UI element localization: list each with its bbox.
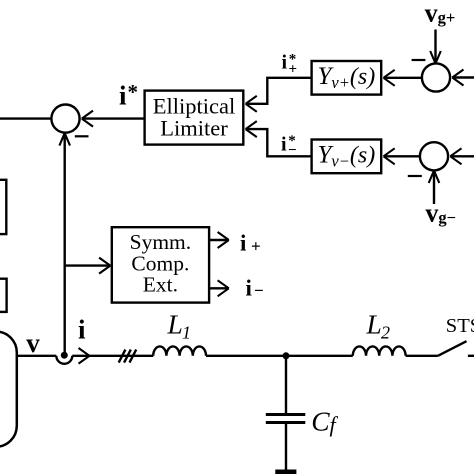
node dot at v/i measurement point: [61, 352, 68, 359]
node dot at Cf junction: [283, 352, 290, 359]
svg-text:+: +: [251, 237, 261, 256]
wire Cf to ground: [285, 424, 287, 471]
arrowhead into Yv- right: [384, 148, 395, 164]
wire vertical i feedback line: [63, 134, 65, 355]
svg-text:2: 2: [381, 323, 390, 343]
arrowhead i+: [218, 232, 229, 248]
summing junction S3 (bottom, vg-): [420, 142, 448, 170]
arrowhead into Elliptical Limiter bottom input: [246, 121, 257, 137]
svg-text:v: v: [26, 328, 40, 358]
arrowhead into S3 bottom: [429, 171, 440, 183]
svg-text:Yv+(s): Yv+(s): [318, 63, 376, 92]
svg-text:i: i: [78, 315, 86, 345]
wire vg- up into S3: [433, 171, 435, 204]
wire L1 to Cf node: [206, 355, 353, 357]
three-phase slashes: [119, 350, 137, 363]
arrowhead into Yv+ right: [384, 70, 395, 86]
svg-text:vg−: vg−: [425, 198, 456, 227]
minus sign at S2: [412, 59, 426, 61]
arrowhead into Elliptical Limiter top input: [246, 96, 257, 112]
capacitor Cf wire from node: [285, 356, 287, 414]
arrowhead into S2 right: [452, 70, 463, 86]
svg-text:*: *: [128, 80, 139, 104]
inductor L1: [153, 346, 206, 355]
wire output i+ from Symm Comp Ext: [209, 239, 227, 241]
svg-text:−: −: [254, 281, 264, 300]
wire summing S3 to Yv-: [384, 155, 421, 157]
wire input from right edge into S2: [452, 76, 474, 78]
ground: [275, 470, 296, 474]
wire main bus from converter to node hop: [17, 355, 57, 357]
Symm Comp Ext box U2: [112, 227, 209, 302]
svg-text:i: i: [246, 276, 253, 301]
arrowhead into summing circle bottom: [59, 133, 70, 145]
minus sign at S3: [408, 175, 422, 177]
wire input from right edge into S3: [450, 155, 474, 157]
STS switch blade (open): [438, 341, 467, 356]
wire hop (dip) at measurement node: [56, 356, 72, 364]
partial block at left edge (lower): [0, 279, 7, 312]
wire main bus node to L1: [72, 355, 153, 357]
partial block at left edge (upper): [0, 180, 6, 234]
STS switch right contact wire: [468, 355, 474, 357]
admittance box Yv-: [312, 140, 382, 174]
svg-text:L: L: [366, 309, 382, 340]
arrowhead into Symm Comp Ext left: [99, 258, 110, 274]
svg-text:Ext.: Ext.: [143, 273, 178, 297]
wire summing S2 to Yv+: [384, 77, 422, 79]
converter block (cut off at left edge): [0, 332, 17, 447]
summing junction S1 (current reference): [51, 105, 79, 133]
wire output i- from Symm Comp Ext: [209, 287, 227, 289]
svg-text:i: i: [282, 52, 288, 74]
arrowhead into S2 top: [430, 51, 441, 63]
svg-text:vg+: vg+: [425, 0, 456, 27]
svg-text:1: 1: [182, 323, 191, 343]
inductor L2: [353, 346, 406, 355]
capacitor Cf plates: [266, 415, 306, 423]
Elliptical Limiter box U1: [145, 91, 244, 145]
admittance box Yv+: [312, 61, 382, 95]
wire Yv+ output to Elliptical Limiter: [246, 78, 312, 104]
svg-text:−: −: [288, 143, 297, 159]
svg-text:C: C: [311, 406, 330, 437]
arrowhead into S3 right: [450, 148, 461, 164]
wire S1 output to left edge: [0, 117, 51, 119]
wire L2 to STS switch: [406, 355, 438, 357]
svg-text:L: L: [167, 309, 183, 340]
wire vg+ down into S2: [434, 30, 436, 64]
svg-text:i: i: [240, 230, 247, 255]
svg-text:i: i: [281, 133, 287, 155]
svg-text:f: f: [330, 412, 339, 437]
svg-text:Limiter: Limiter: [160, 115, 228, 140]
svg-text:STS: STS: [446, 315, 474, 337]
svg-text:Yv−(s): Yv−(s): [318, 142, 376, 171]
current direction arrow on main bus: [79, 348, 90, 364]
minus sign at S1: [75, 135, 89, 137]
arrowhead into S1 right: [82, 111, 93, 127]
summing junction S2 (top, vg+): [422, 63, 450, 91]
wire branch to Symm Comp Ext: [65, 264, 110, 266]
wire Elliptical Limiter to S1: [82, 117, 145, 119]
arrowhead i-: [218, 280, 229, 296]
svg-text:i: i: [119, 81, 127, 111]
svg-text:+: +: [289, 62, 298, 78]
wire Yv- output to Elliptical Limiter: [246, 129, 312, 156]
